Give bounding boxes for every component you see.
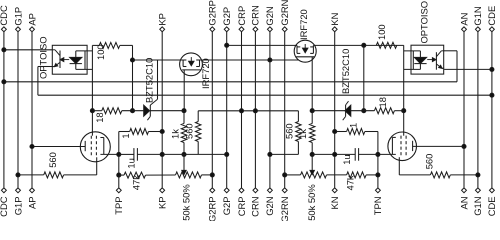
- node TPN 47k junction: [376, 173, 380, 177]
- svg-text:CDE: CDE: [486, 197, 497, 217]
- wire zener drop D1: [157, 60, 159, 99]
- svg-text:47k: 47k: [131, 175, 142, 190]
- U2 light arrow: [427, 59, 433, 61]
- node G2P bottom terminal: [224, 188, 229, 193]
- wire U2 anode-cathode column: [403, 45, 405, 135]
- resistor R11 560: [296, 122, 301, 142]
- svg-text:KP: KP: [157, 13, 168, 26]
- node TPP plate junction: [117, 152, 121, 156]
- resistor R1 100: [99, 42, 120, 48]
- node AP grid junction: [30, 144, 34, 148]
- wire G2N rail: [269, 32, 271, 188]
- wire bus emitter-emitter: [38, 94, 492, 96]
- svg-text:CRP: CRP: [236, 197, 247, 217]
- V2 grid bar: [412, 141, 414, 151]
- node AN top terminal: [462, 27, 467, 32]
- diode D2 BZT52C10: [345, 105, 351, 116]
- svg-text:CRN: CRN: [250, 5, 261, 25]
- U1 phototransistor: [59, 51, 61, 69]
- node G2RP top terminal: [210, 27, 215, 32]
- wire G1P rail: [17, 32, 19, 188]
- node G1P top terminal: [16, 27, 21, 32]
- wire G1P to R5: [18, 174, 44, 176]
- wire R11 bottom lead: [297, 142, 299, 155]
- node CRP bottom terminal: [239, 188, 244, 193]
- Q1 internals: [182, 60, 184, 67]
- resistor R3 1k: [181, 124, 186, 143]
- node KP plate junction: [160, 152, 164, 156]
- node gate drop bottom: [362, 109, 366, 113]
- svg-text:G2N: G2N: [264, 6, 275, 25]
- svg-text:1u: 1u: [341, 154, 352, 164]
- node Q1 source junction: [182, 109, 186, 113]
- node CDC-collector junction: [2, 48, 6, 52]
- svg-text:18: 18: [94, 112, 105, 122]
- node G1P bottom terminal: [16, 188, 21, 193]
- wire CDE rail: [491, 32, 493, 188]
- svg-text:OPTOISO: OPTOISO: [418, 1, 429, 44]
- svg-text:G2P: G2P: [221, 7, 232, 26]
- node CDC top terminal: [1, 27, 6, 32]
- node KN top terminal: [332, 27, 337, 32]
- wire CDC to U1 collector: [4, 49, 52, 51]
- wire U1 anode-cathode column: [91, 45, 93, 135]
- diode D1 BZT52C10: [144, 105, 150, 116]
- U2 LED: [414, 57, 426, 63]
- wire R3 top lead: [183, 111, 185, 124]
- node KN R13 junction: [333, 129, 337, 133]
- wire R3 bottom lead: [183, 143, 185, 155]
- svg-text:AP: AP: [26, 13, 37, 26]
- node CRN bottom terminal: [253, 188, 258, 193]
- wire TPP top corner to R6: [119, 131, 130, 133]
- svg-text:TPN: TPN: [372, 197, 383, 216]
- V1 screen dashes: [90, 136, 92, 158]
- svg-text:50k 50%: 50k 50%: [306, 184, 317, 220]
- node G2N bottom terminal: [267, 188, 272, 193]
- node tube V2 top junction: [402, 109, 406, 113]
- wire plate node to cap: [119, 153, 134, 155]
- svg-text:CRN: CRN: [250, 197, 261, 217]
- wire AP rail: [31, 32, 33, 188]
- wire R1 to gate column: [120, 44, 133, 46]
- wire V2 grid to AN: [413, 145, 464, 147]
- wire gate drop right: [363, 45, 365, 110]
- svg-text:47k: 47k: [344, 175, 355, 190]
- node CDE bottom terminal: [489, 188, 494, 193]
- svg-text:560: 560: [47, 152, 58, 168]
- node AP top terminal: [30, 27, 35, 32]
- wire U2 emitter to CDE: [444, 68, 492, 70]
- node KN plate junction: [333, 152, 337, 156]
- svg-text:G2P: G2P: [221, 197, 232, 216]
- V1 grid bar: [84, 141, 86, 151]
- svg-text:G2RN: G2RN: [279, 0, 290, 26]
- wire zener line middle: [198, 110, 298, 112]
- node G2N top terminal: [267, 27, 272, 32]
- svg-text:18: 18: [377, 97, 388, 107]
- svg-text:AN: AN: [458, 197, 469, 210]
- node G1N top terminal: [475, 27, 480, 32]
- svg-text:1k: 1k: [169, 129, 180, 139]
- wire G2P rail: [226, 32, 228, 188]
- svg-text:G1N: G1N: [472, 197, 483, 216]
- node KP bottom terminal: [160, 188, 165, 193]
- P2 wiper: [311, 154, 313, 171]
- wire KP rail: [161, 32, 163, 188]
- svg-text:G2N: G2N: [264, 197, 275, 216]
- node G1N bottom terminal: [475, 188, 480, 193]
- svg-text:1: 1: [347, 123, 358, 128]
- wire CRP rail: [241, 32, 243, 188]
- node G1N junction: [476, 173, 480, 177]
- svg-text:CDC: CDC: [0, 5, 9, 26]
- svg-text:G2RN: G2RN: [279, 197, 290, 222]
- op-amp U1 OPTOISO box: [52, 45, 87, 74]
- svg-text:KP: KP: [157, 197, 168, 210]
- wire TPN top corner to R13: [365, 131, 378, 133]
- wire V1 plate to TPP: [100, 153, 118, 155]
- node TPP 47k junction: [117, 173, 121, 177]
- wire U1 emitter drop: [38, 66, 52, 68]
- wire zener line right: [312, 110, 345, 112]
- svg-text:OPTOISO: OPTOISO: [37, 36, 48, 79]
- wire pot to R14: [327, 174, 347, 176]
- wire TPP to R7: [119, 174, 124, 176]
- resistor R5 560: [44, 172, 64, 178]
- node CRP tap: [239, 109, 243, 113]
- transistor Q1 IRF720 body: [180, 53, 203, 76]
- svg-text:1u: 1u: [125, 158, 136, 168]
- node G2P top terminal: [224, 27, 229, 32]
- wire V1 cathode pin: [96, 157, 98, 175]
- node gate column tap: [130, 58, 134, 62]
- wire pot to G2RP: [202, 174, 213, 176]
- wire R4 top corner: [197, 111, 199, 122]
- wire R10 bottom lead: [311, 143, 313, 155]
- wire R12 to G1N: [450, 174, 478, 176]
- node G2RP pot junction: [210, 173, 214, 177]
- wire R7 to pot: [146, 174, 176, 176]
- wire G2P-G2N drain bus: [227, 44, 297, 46]
- wire Q2 drain line: [313, 44, 403, 46]
- wire Q1 drain link: [200, 59, 299, 61]
- resistor R10 1k: [310, 124, 315, 143]
- svg-text:1: 1: [120, 133, 131, 138]
- node CRN top terminal: [253, 27, 258, 32]
- V1 plate bracket: [103, 138, 105, 155]
- tube V1 envelope: [80, 132, 110, 162]
- svg-text:CDE: CDE: [486, 6, 497, 26]
- svg-text:KN: KN: [329, 13, 340, 26]
- node CDE bus junction: [490, 93, 494, 97]
- wire cap to TPN: [359, 153, 378, 155]
- svg-text:CDC: CDC: [0, 196, 9, 217]
- node CDE top terminal: [489, 27, 494, 32]
- node G1P junction: [16, 173, 20, 177]
- V2 plate bracket: [391, 137, 393, 154]
- svg-text:560: 560: [283, 123, 294, 139]
- wire U1 to R1: [92, 44, 99, 46]
- potentiometer P2 50k: [301, 172, 327, 178]
- wire V2 plate to TPN: [378, 153, 396, 155]
- wire R5 to cathode: [64, 174, 97, 176]
- wire G1N rail: [477, 32, 479, 188]
- wire KN rail: [334, 32, 336, 188]
- wire Q2 source pin: [311, 57, 313, 111]
- U2 phototransistor: [435, 52, 437, 69]
- wire cap to KP: [137, 153, 162, 155]
- resistor R12 560: [430, 172, 450, 178]
- wire zener line left: [92, 110, 101, 112]
- node G2RP bottom terminal: [210, 188, 215, 193]
- node R10 bottom junction: [310, 152, 314, 156]
- wire TPN rail: [377, 132, 379, 188]
- node TPP bottom terminal: [116, 188, 121, 193]
- node G2N drain tap: [268, 58, 272, 62]
- svg-text:G1P: G1P: [12, 197, 23, 216]
- resistor R7 47k: [124, 172, 146, 178]
- node CDC bottom terminal: [1, 188, 6, 193]
- resistor R13 1: [347, 129, 365, 135]
- node TPN bottom terminal: [375, 188, 380, 193]
- svg-text:IRF720: IRF720: [200, 58, 211, 89]
- svg-text:G1P: G1P: [12, 7, 23, 26]
- resistor R9 18: [374, 108, 394, 114]
- svg-text:G2RP: G2RP: [207, 197, 218, 222]
- node CDE emitter junction: [490, 67, 494, 71]
- wire KP to G2P plate line: [162, 153, 227, 155]
- svg-text:100: 100: [376, 24, 387, 40]
- V2 screen dashes: [400, 136, 402, 158]
- resistor R14 47k: [347, 172, 367, 178]
- resistor R6 1: [130, 129, 149, 135]
- svg-text:AN: AN: [458, 13, 469, 26]
- node G2P bridge junction: [225, 43, 229, 47]
- wire R4 bottom lead: [197, 142, 199, 155]
- wire gate Q1: [133, 59, 184, 61]
- wire CDC rail: [3, 32, 5, 188]
- wire G2RP rail: [211, 32, 213, 188]
- wire R13 to KN: [335, 131, 347, 133]
- node G2P plate junction: [225, 152, 229, 156]
- wire V2 cathode pin: [398, 157, 400, 175]
- wire AP to V1 grid: [32, 146, 85, 148]
- wire G2RN to pot: [285, 174, 301, 176]
- wire cathode to R12: [399, 174, 430, 176]
- op-amp U2 OPTOISO box: [411, 45, 444, 74]
- svg-text:100: 100: [95, 44, 106, 60]
- wire CRN rail: [254, 32, 256, 188]
- transistor Q2 IRF720 body: [294, 40, 316, 62]
- node CRN tap: [253, 109, 257, 113]
- wire AN rail: [463, 32, 465, 188]
- node Q2 source junction: [310, 109, 314, 113]
- svg-text:TPP: TPP: [113, 197, 124, 215]
- svg-text:IRF720: IRF720: [298, 9, 309, 40]
- capacitor C2 1u: [354, 148, 356, 161]
- wire Q1 source pin: [183, 70, 185, 111]
- node KN bottom terminal: [332, 188, 337, 193]
- U1 LED: [70, 57, 82, 63]
- U1 light arrow: [63, 59, 69, 61]
- wire G2RN rail: [284, 32, 286, 188]
- node G2N plate junction: [268, 152, 272, 156]
- node Q2 gate drop junction: [362, 43, 366, 47]
- wire R11 top corner: [297, 111, 299, 122]
- wire bus CDC-collector: [4, 81, 457, 83]
- svg-text:G1N: G1N: [472, 6, 483, 25]
- resistor R8 100: [376, 42, 397, 48]
- Q2 internals: [296, 45, 298, 53]
- resistor R2 18: [102, 108, 122, 114]
- capacitor C1 1u: [133, 148, 135, 161]
- P1 wiper: [183, 154, 185, 171]
- svg-text:BZT52C10: BZT52C10: [340, 49, 351, 94]
- node G2RN bottom terminal: [282, 188, 287, 193]
- svg-text:G2RP: G2RP: [207, 0, 218, 26]
- node CDC bus junction: [2, 80, 6, 84]
- node CRP top terminal: [239, 27, 244, 32]
- svg-text:BZT52C10: BZT52C10: [144, 58, 155, 103]
- svg-text:560: 560: [183, 123, 194, 139]
- wire R10 top lead: [311, 111, 313, 124]
- node G2RN top terminal: [282, 27, 287, 32]
- node TPN plate junction: [376, 152, 380, 156]
- wire R14 to TPN: [366, 174, 378, 176]
- tube V2 envelope: [388, 132, 417, 161]
- svg-text:560: 560: [423, 154, 434, 170]
- potentiometer P1 50k: [176, 172, 202, 178]
- node AN grid junction: [462, 144, 466, 148]
- node tube V1 top junction: [90, 109, 94, 113]
- node KP R6 junction: [160, 129, 164, 133]
- svg-text:50k 50%: 50k 50%: [181, 184, 192, 220]
- node G2RN pot junction: [283, 173, 287, 177]
- node AP bottom terminal: [30, 188, 35, 193]
- node R3 bottom junction: [182, 152, 186, 156]
- node KP top terminal: [160, 27, 165, 32]
- svg-text:KN: KN: [329, 197, 340, 210]
- resistor R4 560: [196, 122, 201, 142]
- node AN bottom terminal: [462, 188, 467, 193]
- node gate column bottom: [130, 109, 134, 113]
- svg-text:CRP: CRP: [236, 6, 247, 26]
- wire KN to cap right: [312, 153, 355, 155]
- wire TPP rail: [118, 132, 120, 188]
- svg-text:AP: AP: [26, 197, 37, 210]
- wire R6 to KP: [149, 131, 163, 133]
